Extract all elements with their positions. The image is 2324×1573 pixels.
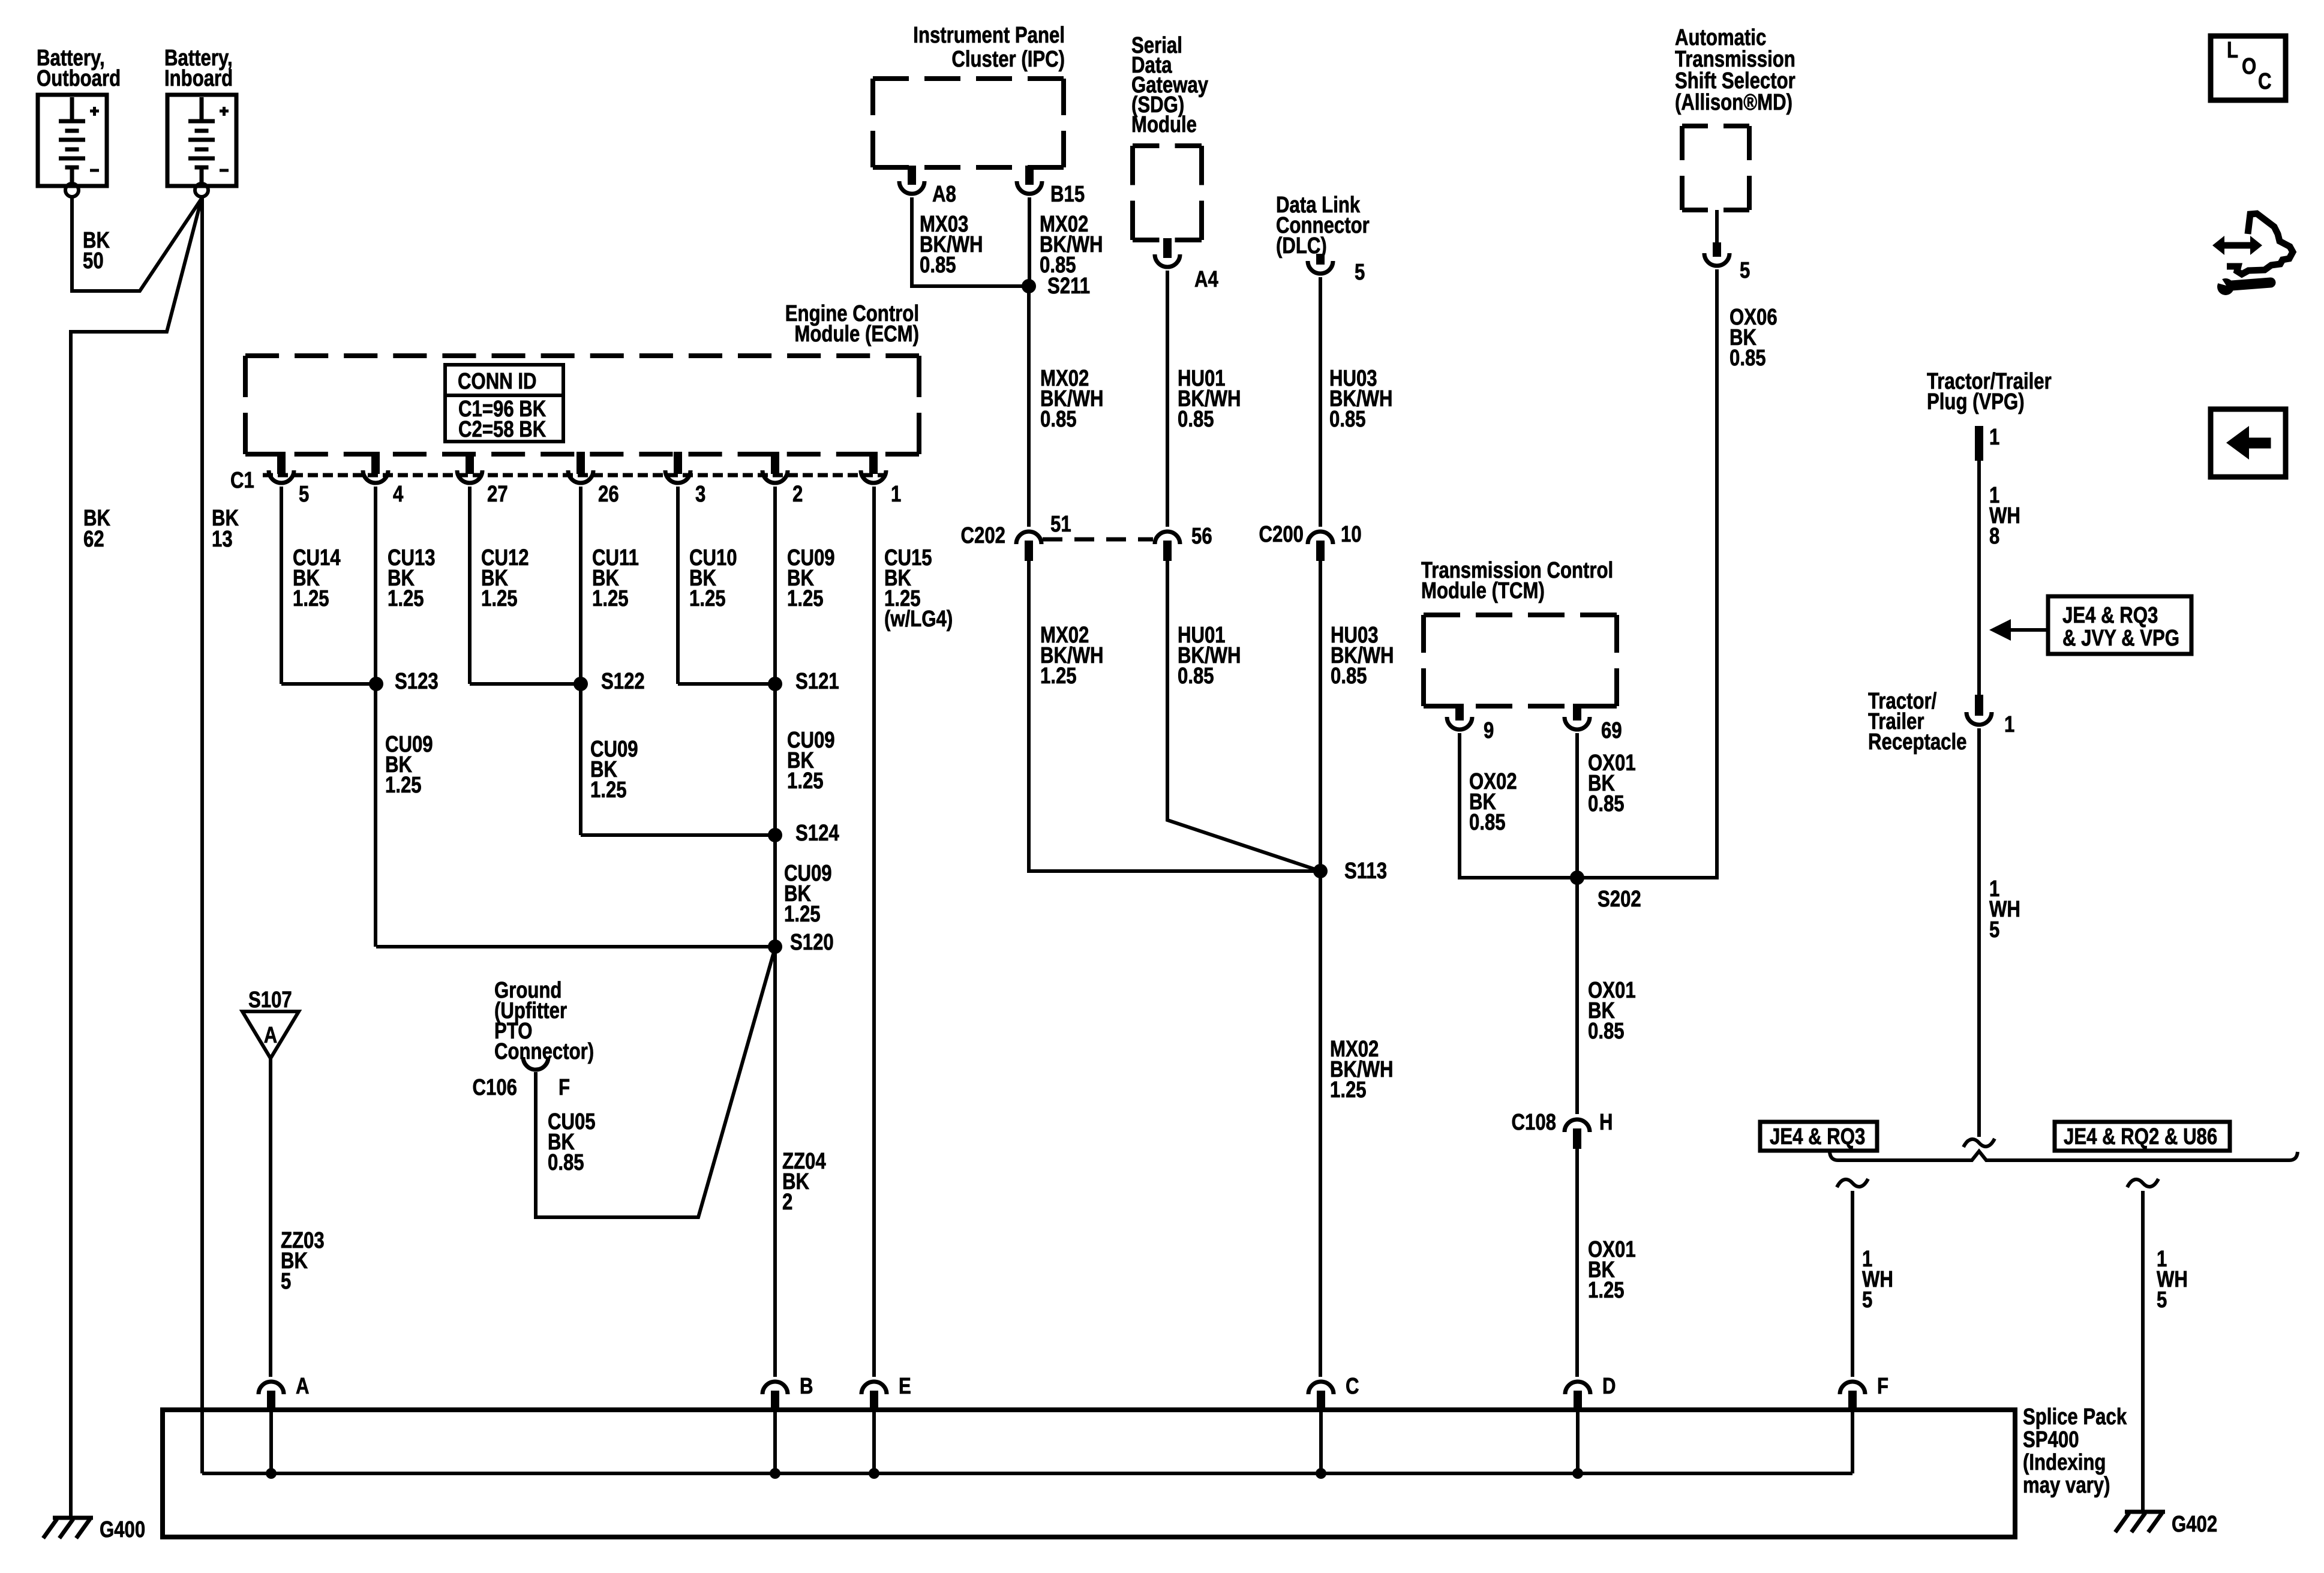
splice pack pin B (762, 1374, 813, 1411)
svg-text:C200: C200 (1259, 522, 1304, 547)
C202 dashed connector line (1043, 538, 1153, 542)
svg-text:F: F (559, 1075, 570, 1100)
ground G400 (43, 1517, 145, 1542)
splice pack pin D internal wire (1572, 1411, 1583, 1479)
Tractor/Trailer Receptacle pin 1 (1868, 689, 2014, 755)
svg-text:5: 5 (299, 482, 309, 507)
svg-text:Outboard: Outboard (37, 66, 121, 91)
svg-text:Module: Module (1131, 112, 1197, 137)
svg-text:JE4 & RQ3: JE4 & RQ3 (2062, 603, 2158, 628)
wire 1 WH 5 (left option branch) (1837, 1179, 1893, 1377)
splice pack pin F (1840, 1374, 1888, 1411)
splice S107 (triangle) (242, 987, 299, 1058)
svg-text:50: 50 (83, 248, 104, 274)
svg-text:9: 9 (1484, 718, 1494, 743)
ECM pin 4 (363, 452, 404, 507)
wire CU12 BK 1.25 (470, 487, 581, 684)
wire CU10 BK 1.25 (678, 487, 775, 684)
wire 1 WH 5 (receptacle down) (1979, 728, 2020, 1137)
svg-text:1.25: 1.25 (784, 902, 821, 927)
wire CU13 BK 1.25 (376, 487, 436, 947)
svg-text:Module (TCM): Module (TCM) (1421, 578, 1545, 604)
module U1 Engine Control Module (ECM) (245, 301, 919, 454)
svg-text:Receptacle: Receptacle (1868, 730, 1966, 755)
svg-text:H: H (1599, 1110, 1613, 1135)
svg-text:10: 10 (1341, 522, 1362, 547)
TCM pin 9 (1447, 704, 1494, 743)
svg-text:1.25: 1.25 (481, 586, 518, 611)
svg-text:C1: C1 (230, 468, 254, 493)
wire OX01 BK 1.25 (C108 to D) (1577, 1149, 1636, 1377)
svg-text:0.85: 0.85 (1178, 407, 1214, 432)
splice pack bus (202, 1411, 1852, 1473)
splice pack pin A internal wire (266, 1411, 277, 1479)
wire HU03 BK/WH 0.85 (DLC to C200) (1320, 277, 1393, 527)
svg-text:0.85: 0.85 (1469, 810, 1506, 835)
service icon wrench (2211, 272, 2271, 295)
option brace (1830, 1151, 2298, 1160)
splice pack pin C (1308, 1374, 1359, 1411)
svg-text:C202: C202 (961, 523, 1005, 548)
wire MX02 BK/WH 1.25 (S113 to C) (1320, 871, 1394, 1377)
wire CU14 BK 1.25 (281, 487, 376, 684)
svg-text:1: 1 (891, 482, 901, 507)
svg-text:E: E (899, 1374, 911, 1399)
svg-text:2: 2 (782, 1190, 792, 1215)
svg-text:5: 5 (1740, 258, 1750, 283)
svg-text:S120: S120 (790, 930, 834, 955)
splice pack pin C internal wire (1316, 1411, 1326, 1479)
svg-text:A: A (264, 1023, 278, 1048)
wire HU01 BK/WH 0.85 (A4 to C202) (1167, 271, 1241, 527)
svg-text:1.25: 1.25 (689, 586, 726, 611)
splice pack SP400 box (163, 1410, 2015, 1537)
wire OX01 BK 0.85 (S202 to C108) (1577, 878, 1636, 1114)
splice pack pin D (1565, 1374, 1616, 1411)
wire ZZ03 BK 5 (271, 1058, 325, 1377)
module U5 Automatic Transmission Shift Selector (1675, 25, 1795, 210)
service icon outline (2227, 214, 2293, 274)
ground G402 (2115, 1512, 2217, 1537)
svg-text:S211: S211 (1047, 274, 1090, 299)
wire 1 WH 8 (1979, 461, 2020, 695)
svg-text:C108: C108 (1512, 1110, 1556, 1135)
svg-text:F: F (1877, 1374, 1888, 1399)
svg-text:0.85: 0.85 (1730, 346, 1766, 371)
module U2 Instrument Panel Cluster (IPC) (873, 23, 1065, 167)
svg-text:Cluster (IPC): Cluster (IPC) (951, 47, 1065, 72)
svg-text:B15: B15 (1050, 182, 1085, 207)
callout JE4 & RQ2 & U86 (2055, 1122, 2230, 1151)
svg-text:CONN ID: CONN ID (458, 369, 537, 394)
connector C202 pin 56 (1155, 524, 1212, 561)
svg-text:SP400: SP400 (2023, 1427, 2079, 1452)
battery B2 Inboard (164, 46, 236, 197)
svg-text:4: 4 (393, 482, 404, 507)
svg-text:Connector): Connector) (494, 1039, 594, 1064)
splice S211 (1022, 274, 1090, 299)
wire MX02 BK/WH 0.85 (S211 to C202) (1029, 286, 1104, 527)
selector pin 5 (1704, 210, 1750, 283)
svg-text:A4: A4 (1194, 267, 1218, 292)
splice S113 (1313, 858, 1387, 884)
svg-text:may vary): may vary) (2023, 1473, 2110, 1498)
svg-text:5: 5 (1355, 260, 1365, 285)
svg-text:JE4 & RQ3: JE4 & RQ3 (1770, 1124, 1865, 1149)
svg-text:1.25: 1.25 (293, 586, 329, 611)
ECM pin 26 (568, 452, 619, 507)
splice S120 (768, 930, 834, 955)
splice S122 (574, 669, 645, 694)
wire OX06 BK 0.85 (1577, 269, 1777, 878)
svg-text:(w/LG4): (w/LG4) (884, 607, 953, 632)
svg-text:(Allison®MD): (Allison®MD) (1675, 90, 1792, 115)
service icon double arrow (2212, 236, 2262, 255)
svg-text:1.25: 1.25 (787, 769, 824, 794)
svg-text:5: 5 (2157, 1287, 2167, 1313)
svg-text:13: 13 (212, 527, 233, 552)
ECM pin 27 (457, 452, 508, 507)
wire BK 50 (72, 196, 202, 291)
splice S124 (768, 821, 839, 846)
splice pack pin A (259, 1374, 310, 1411)
svg-text:S107: S107 (248, 987, 292, 1013)
LOC box icon (2211, 36, 2286, 100)
svg-text:S124: S124 (795, 821, 839, 846)
splice S123 (369, 669, 439, 694)
wire CU09 BK 1.25 (S121 to S124) (787, 728, 835, 794)
wire from S123 down to S120 (376, 945, 775, 948)
svg-text:C106: C106 (473, 1075, 517, 1100)
DLC pin 5 (1308, 254, 1365, 285)
wire HU01 BK/WH 0.85 (C202 to S113) (1167, 561, 1320, 871)
splice pack pin E (861, 1374, 911, 1411)
connector C202 pin 51 (961, 512, 1071, 561)
svg-text:5: 5 (281, 1269, 291, 1294)
svg-text:0.85: 0.85 (920, 253, 956, 278)
wire BK 13 (202, 197, 239, 1473)
wire OX02 BK 0.85 (1460, 733, 1577, 878)
svg-text:(Indexing: (Indexing (2023, 1450, 2106, 1475)
callout JE4 & RQ3 & JVY & VPG (1989, 596, 2191, 654)
Data Link Connector (DLC) (1276, 193, 1370, 259)
IPC pin B15 (1017, 166, 1085, 207)
svg-text:0.85: 0.85 (548, 1150, 584, 1175)
ECM pin 3 (665, 452, 705, 507)
connector C1 dashed line (263, 473, 887, 478)
TCM pin 69 (1565, 704, 1622, 743)
svg-text:S123: S123 (395, 669, 439, 694)
svg-text:0.85: 0.85 (1329, 407, 1366, 432)
svg-text:56: 56 (1191, 524, 1212, 549)
splice pack pin B internal wire (770, 1411, 780, 1479)
svg-text:5: 5 (1862, 1287, 1872, 1313)
svg-text:C: C (1346, 1374, 1359, 1399)
svg-text:1.25: 1.25 (385, 773, 422, 798)
svg-text:G402: G402 (2172, 1512, 2217, 1537)
svg-text:Plug (VPG): Plug (VPG) (1927, 389, 2025, 415)
svg-text:O: O (2242, 54, 2256, 79)
svg-text:1.25: 1.25 (592, 586, 629, 611)
module U3 Serial Data Gateway (SDG) (1131, 33, 1209, 240)
connector C108 pin H (1512, 1110, 1613, 1149)
svg-text:0.85: 0.85 (1588, 1019, 1625, 1044)
svg-text:1.25: 1.25 (590, 778, 627, 803)
svg-text:C2=58 BK: C2=58 BK (458, 417, 546, 442)
svg-text:& JVY & VPG: & JVY & VPG (2062, 626, 2179, 651)
wire MX02 BK/WH 1.25 (C202 to S113) (1029, 561, 1320, 871)
svg-text:1.25: 1.25 (1330, 1077, 1367, 1103)
ECM pin 5 (269, 452, 309, 507)
svg-text:JE4 & RQ2 & U86: JE4 & RQ2 & U86 (2064, 1124, 2217, 1149)
module U4 Transmission Control Module (TCM) (1421, 558, 1617, 706)
connector C106 pin F (473, 1057, 570, 1100)
wire OX01 BK 0.85 (pin 69) (1577, 733, 1636, 878)
svg-text:Inboard: Inboard (164, 66, 233, 91)
svg-text:Module (ECM): Module (ECM) (794, 322, 919, 347)
ECM pin 1 (861, 452, 901, 507)
svg-text:1.25: 1.25 (1040, 664, 1077, 689)
svg-text:27: 27 (487, 482, 508, 507)
wire BK 62 (71, 199, 202, 1518)
svg-text:D: D (1602, 1374, 1616, 1399)
svg-text:0.85: 0.85 (1588, 791, 1625, 816)
wire MX03 BK/WH 0.85 (912, 197, 1029, 286)
splice pack pin E internal wire (869, 1411, 879, 1479)
connector C200 pin 10 (1259, 522, 1362, 561)
wire CU05 BK 0.85 (536, 948, 775, 1217)
svg-text:A: A (296, 1374, 310, 1399)
ECM pin 2 (762, 452, 803, 507)
SDG pin A4 (1155, 238, 1218, 292)
svg-text:G400: G400 (100, 1517, 145, 1542)
Tractor/Trailer Plug (VPG) (1927, 369, 2052, 461)
svg-text:1: 1 (1989, 425, 1999, 450)
battery B1 Outboard (37, 46, 121, 197)
CONN ID table (445, 365, 563, 442)
svg-text:S121: S121 (795, 669, 839, 694)
svg-text:3: 3 (695, 482, 705, 507)
svg-text:C: C (2258, 69, 2272, 94)
svg-text:69: 69 (1601, 718, 1622, 743)
svg-text:26: 26 (598, 482, 619, 507)
splice S121 (768, 669, 839, 694)
wire HU03 BK/WH 0.85 (C200 to S113) (1320, 561, 1394, 871)
svg-text:1.25: 1.25 (787, 586, 824, 611)
callout JE4 & RQ3 (1760, 1122, 1877, 1151)
svg-text:0.85: 0.85 (1178, 664, 1214, 689)
svg-text:1.25: 1.25 (1588, 1278, 1625, 1303)
wire 1 WH 5 (right option branch) (2127, 1179, 2188, 1512)
splice S202 (1570, 870, 1641, 912)
svg-text:0.85: 0.85 (1040, 407, 1077, 432)
svg-text:Instrument Panel: Instrument Panel (913, 23, 1065, 48)
wire CU09 BK 1.25 (775, 487, 835, 947)
wire CU09 BK 1.25 (S123 leg) (385, 732, 433, 798)
svg-text:Splice Pack: Splice Pack (2023, 1404, 2127, 1430)
back arrow box icon (2211, 409, 2286, 477)
wire MX02 BK/WH 0.85 (B15) (1029, 197, 1103, 286)
squiggle at end of receptacle wire (1963, 1139, 1995, 1147)
wire CU09 BK 1.25 (S122 to S124) (581, 737, 775, 835)
svg-text:L: L (2227, 38, 2238, 63)
svg-text:0.85: 0.85 (1331, 664, 1367, 689)
svg-text:8: 8 (1989, 524, 1999, 549)
svg-text:51: 51 (1050, 512, 1071, 537)
wire CU15 BK 1.25 (w/LG4) (874, 487, 953, 1377)
svg-text:62: 62 (83, 527, 104, 552)
wire ZZ04 BK 2 (775, 947, 826, 1377)
svg-text:S122: S122 (601, 669, 645, 694)
svg-text:5: 5 (1989, 917, 1999, 942)
wire CU11 BK 1.25 (581, 487, 639, 835)
svg-text:1: 1 (2004, 712, 2014, 737)
svg-text:2: 2 (792, 482, 803, 507)
svg-text:A8: A8 (932, 182, 956, 207)
wire CU09 BK 1.25 (S124 to S120) (784, 861, 832, 927)
svg-text:S202: S202 (1598, 887, 1641, 912)
svg-text:B: B (800, 1374, 813, 1399)
IPC pin A8 (899, 166, 956, 207)
svg-text:S113: S113 (1344, 858, 1387, 884)
svg-text:1.25: 1.25 (388, 586, 424, 611)
